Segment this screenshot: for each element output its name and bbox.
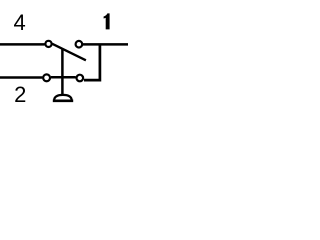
wire C3 to C4: [51, 76, 76, 79]
svg-text:2: 2: [14, 82, 26, 107]
switch lever: [52, 44, 86, 61]
contact C3 (pin 2): [43, 74, 50, 81]
pin label 1: [104, 13, 110, 29]
svg-text:4: 4: [13, 10, 25, 35]
actuator shaft: [61, 49, 64, 96]
wire pin 1: [83, 43, 128, 46]
contact C4: [77, 75, 84, 82]
actuator plunger base: [53, 100, 73, 103]
contact C1 (pin 4): [45, 41, 51, 47]
wire pin 4: [0, 43, 45, 46]
actuator plunger dome: [54, 95, 72, 100]
wire C4 to pin-1 net (corner): [84, 44, 100, 80]
wire pin 2: [0, 76, 42, 79]
contact C2 (pin 1): [76, 41, 83, 48]
